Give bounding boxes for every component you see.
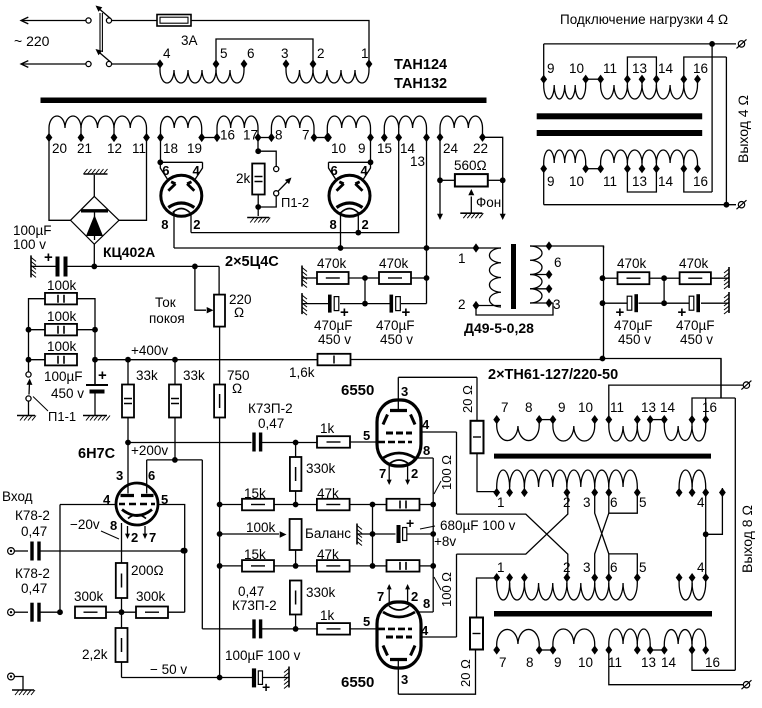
wire switch b to primary tap 4 bbox=[112, 63, 161, 65]
4ohm lower jumper box 13-14 bbox=[627, 169, 656, 192]
6N7S grid dashes bbox=[119, 503, 155, 506]
switch S1a arm bbox=[97, 7, 111, 19]
6550 no1 screen dashes bbox=[386, 432, 412, 435]
cathode rail to choke bbox=[174, 247, 476, 249]
svg-text:7: 7 bbox=[499, 655, 507, 670]
svg-text:−20v: −20v bbox=[70, 517, 100, 532]
svg-text:Ток: Ток bbox=[155, 295, 176, 310]
svg-text:Д49-5-0,28: Д49-5-0,28 bbox=[464, 320, 534, 336]
svg-text:2k: 2k bbox=[236, 171, 251, 186]
B+ feed box to taps 16 bbox=[692, 398, 735, 420]
svg-text:6: 6 bbox=[162, 163, 169, 178]
svg-text:Ω: Ω bbox=[234, 305, 244, 320]
capacitor 470uF L2 bbox=[365, 303, 390, 305]
left bus of 100k stack bbox=[29, 299, 46, 372]
svg-text:1k: 1k bbox=[320, 421, 335, 436]
svg-text:17: 17 bbox=[243, 128, 258, 143]
grid bias bus right bbox=[372, 505, 374, 566]
svg-text:12: 12 bbox=[107, 141, 122, 156]
svg-text:6: 6 bbox=[148, 468, 155, 483]
svg-text:22: 22 bbox=[473, 141, 488, 156]
svg-text:2: 2 bbox=[131, 530, 138, 545]
6550 no2 cathode arc bbox=[383, 612, 415, 617]
svg-text:4: 4 bbox=[697, 560, 705, 575]
svg-text:19: 19 bbox=[187, 141, 202, 156]
6550 no2 anode wire to 20 Ohm no2 bbox=[398, 650, 475, 695]
svg-text:100 Ω: 100 Ω bbox=[439, 455, 454, 490]
svg-text:33k: 33k bbox=[136, 368, 158, 383]
svg-text:450 v: 450 v bbox=[680, 332, 713, 347]
svg-text:300k: 300k bbox=[74, 589, 104, 604]
6N7S heater arrows pins 2 7 bbox=[127, 526, 129, 535]
secondary winding 16-17 bbox=[216, 128, 218, 138]
bus from choke pin6 bbox=[600, 275, 606, 281]
20 Ohm no2 to transformer2 tap 1 bbox=[477, 578, 497, 618]
choke D49-5-0.28 left coil bbox=[476, 247, 501, 249]
svg-text:3: 3 bbox=[401, 672, 408, 687]
resistor 100 Ohm upper bbox=[387, 499, 420, 511]
screen no1 cross wire to lower tap2 bbox=[457, 514, 568, 578]
svg-text:100µF: 100µF bbox=[13, 223, 52, 238]
svg-text:8: 8 bbox=[423, 596, 430, 611]
choke pin2 to pin3 wire bbox=[476, 303, 553, 315]
resistor 1.6k bbox=[318, 354, 351, 366]
svg-text:18: 18 bbox=[163, 141, 178, 156]
resistor 2k bbox=[252, 164, 265, 195]
wire 1k to 6550 no1 grid bbox=[350, 441, 378, 443]
20 Ohm no1 to transformer tap 1 bbox=[477, 453, 497, 491]
svg-text:Выход 8 Ω: Выход 8 Ω bbox=[739, 505, 755, 573]
svg-text:11: 11 bbox=[132, 141, 146, 156]
svg-text:6: 6 bbox=[247, 46, 255, 61]
svg-text:3: 3 bbox=[281, 46, 289, 61]
svg-text:6550: 6550 bbox=[341, 674, 374, 691]
ground above bridge bbox=[84, 169, 108, 174]
4ohm core bars bbox=[537, 113, 703, 119]
svg-text:ТАН124: ТАН124 bbox=[394, 57, 447, 73]
svg-text:100 v: 100 v bbox=[13, 237, 46, 252]
svg-text:6Н7С: 6Н7С bbox=[78, 446, 116, 462]
svg-text:2: 2 bbox=[458, 297, 466, 312]
junction bbox=[362, 275, 368, 281]
choke core bar bbox=[511, 244, 516, 309]
transformer T1 core bar bbox=[41, 98, 487, 104]
4ohm top wire with terminal bbox=[544, 43, 736, 45]
ground side left 470uF bbox=[302, 293, 307, 315]
svg-text:1,6k: 1,6k bbox=[289, 365, 315, 380]
wire to pot top bbox=[218, 266, 220, 294]
ground below P1-1 bbox=[17, 416, 36, 421]
svg-text:100µF 100 v: 100µF 100 v bbox=[225, 648, 301, 663]
resistor 750 Ohm bbox=[214, 385, 225, 418]
tube2 pin 2 wire bbox=[357, 212, 359, 233]
tube1 pin 8 wire bbox=[173, 212, 175, 248]
6N7S cathode pin8 wire bbox=[121, 523, 123, 563]
capacitor 100uF 450v bbox=[86, 384, 108, 386]
svg-text:8: 8 bbox=[330, 217, 337, 232]
fuse 3A bbox=[157, 15, 191, 27]
resistor 330k lower bbox=[290, 581, 302, 615]
svg-text:Выход 4 Ω: Выход 4 Ω bbox=[735, 95, 751, 163]
svg-text:14: 14 bbox=[660, 400, 676, 415]
svg-text:450 v: 450 v bbox=[318, 332, 351, 347]
6550 no1 cathode arc bbox=[383, 453, 415, 458]
6550 no1 anode bar and lead bbox=[390, 409, 407, 412]
svg-text:15k: 15k bbox=[244, 486, 266, 501]
svg-text:8: 8 bbox=[275, 128, 283, 143]
svg-text:10: 10 bbox=[569, 61, 584, 76]
svg-text:6: 6 bbox=[331, 163, 338, 178]
svg-text:5: 5 bbox=[363, 428, 370, 443]
wire cap to ground bbox=[263, 677, 290, 679]
svg-text:6550: 6550 bbox=[341, 382, 374, 399]
6550 no2 cathode pin8 wire bbox=[417, 611, 433, 613]
resistor 200 Ohm bbox=[116, 563, 128, 598]
svg-text:~ 220: ~ 220 bbox=[14, 33, 50, 49]
svg-text:200Ω: 200Ω bbox=[131, 563, 164, 578]
svg-text:2: 2 bbox=[193, 217, 200, 232]
svg-text:К78-2: К78-2 bbox=[15, 508, 50, 523]
tap 22 wire bbox=[483, 137, 503, 214]
svg-text:3А: 3А bbox=[181, 33, 198, 48]
svg-text:13: 13 bbox=[641, 655, 656, 670]
resistor 20 Ohm no2 bbox=[470, 618, 483, 650]
potentiometer 220 Ohm bbox=[214, 295, 225, 327]
svg-text:8: 8 bbox=[161, 217, 168, 232]
tap 17 wire down bbox=[257, 138, 259, 152]
svg-text:− 50 v: − 50 v bbox=[150, 662, 187, 677]
resistor 470k R2 bbox=[664, 277, 680, 279]
svg-text:6: 6 bbox=[554, 255, 562, 270]
tap5 upper link bbox=[609, 493, 638, 514]
bridge top to ground bbox=[93, 175, 95, 196]
label 680uF 100v with callout bbox=[420, 526, 435, 529]
svg-text:3: 3 bbox=[116, 468, 123, 483]
svg-text:100k: 100k bbox=[47, 278, 77, 293]
svg-text:7: 7 bbox=[377, 589, 384, 604]
tube #1 top flag bbox=[160, 161, 202, 163]
svg-text:16: 16 bbox=[702, 400, 717, 415]
wire input cap to grid line bbox=[39, 550, 183, 552]
6550 no2 heater arrows bbox=[388, 587, 390, 602]
svg-text:Баланс: Баланс bbox=[305, 526, 351, 541]
secondary winding 10-9 bbox=[326, 128, 328, 138]
svg-text:9: 9 bbox=[558, 400, 566, 415]
6550 no1 screen pin4 wire bbox=[420, 431, 457, 433]
resistor 330k upper bbox=[295, 443, 297, 458]
svg-text:2,2k: 2,2k bbox=[82, 647, 108, 662]
ground below 2k bbox=[247, 218, 270, 223]
6N7S anode box bbox=[172, 457, 178, 463]
TN61 no2 core bar bbox=[494, 611, 712, 617]
svg-text:11: 11 bbox=[603, 61, 617, 76]
svg-text:450 v: 450 v bbox=[618, 332, 651, 347]
ground below hum pot bbox=[460, 213, 483, 218]
svg-text:К73П-2: К73П-2 bbox=[248, 401, 293, 416]
wire to rail x426 bbox=[411, 277, 427, 279]
wire P1-1 to ground bbox=[28, 401, 30, 416]
svg-text:100k: 100k bbox=[246, 520, 276, 535]
jumper 17 to 8 winding bbox=[258, 137, 271, 139]
svg-text:2×ТН61-127/220-50: 2×ТН61-127/220-50 bbox=[488, 367, 618, 383]
resistor 15k upper bbox=[220, 504, 242, 506]
svg-text:14: 14 bbox=[658, 174, 674, 189]
svg-text:11: 11 bbox=[608, 655, 622, 670]
svg-text:Фон: Фон bbox=[476, 195, 501, 210]
4ohm upper winding bbox=[543, 44, 545, 79]
resistor 100k R3 bbox=[45, 354, 77, 366]
svg-text:покоя: покоя bbox=[149, 311, 185, 326]
svg-text:7: 7 bbox=[302, 128, 310, 143]
ground below 100uF 450v bbox=[83, 416, 110, 421]
svg-text:+200v: +200v bbox=[131, 443, 168, 458]
svg-text:10: 10 bbox=[569, 174, 584, 189]
svg-text:6: 6 bbox=[610, 495, 618, 510]
svg-text:13: 13 bbox=[632, 174, 647, 189]
TN61 no1 primary winding 1-4 row bbox=[493, 488, 500, 497]
choke right coil bbox=[530, 246, 542, 303]
tube #2 top flag bbox=[329, 161, 371, 163]
jumper 19 to 16 winding bbox=[202, 137, 217, 139]
screen no2 cross wire to upper tap2 bbox=[457, 493, 568, 555]
6550 no1 cathode pin8 wire bbox=[417, 457, 433, 459]
svg-text:0,47: 0,47 bbox=[21, 524, 47, 539]
svg-text:330k: 330k bbox=[306, 461, 336, 476]
4ohm lower winding bbox=[543, 169, 545, 205]
svg-text:560Ω: 560Ω bbox=[454, 158, 487, 173]
switch S1a pole bbox=[106, 18, 111, 23]
4ohm lower right link 16 bbox=[684, 169, 712, 192]
svg-text:14: 14 bbox=[661, 655, 677, 670]
output tube 6550 no2 bbox=[377, 602, 421, 668]
TN61 no2 primary winding 1-4 row bbox=[493, 573, 500, 582]
svg-text:47k: 47k bbox=[317, 486, 339, 501]
svg-text:47k: 47k bbox=[317, 547, 339, 562]
2k bottom junction bbox=[257, 195, 259, 216]
bridge bottom wire bbox=[93, 244, 95, 266]
resistor 47k upper bbox=[317, 499, 350, 511]
svg-text:470µF: 470µF bbox=[376, 318, 415, 333]
svg-text:7: 7 bbox=[379, 466, 386, 481]
resistor 15k lower bbox=[220, 565, 242, 567]
triode 6N7S bbox=[116, 483, 158, 525]
heater line from tap 14 bbox=[191, 138, 399, 233]
AC input terminal circle 2 bbox=[86, 61, 91, 66]
svg-text:13: 13 bbox=[641, 400, 656, 415]
capacitor 470uF R1 bbox=[603, 302, 628, 304]
svg-text:5: 5 bbox=[363, 614, 370, 629]
svg-text:20: 20 bbox=[52, 141, 67, 156]
svg-text:8: 8 bbox=[525, 400, 533, 415]
resistor 33k B bbox=[174, 360, 176, 385]
rectifier tube 5Ts4S #1 bbox=[161, 175, 202, 216]
wire junction to bias pot bbox=[94, 265, 219, 267]
wire cap to cathode bus bbox=[407, 533, 433, 535]
wire to ground right bbox=[711, 277, 729, 279]
wire cap to 1k bbox=[261, 442, 317, 444]
svg-text:20 Ω: 20 Ω bbox=[460, 385, 475, 413]
resistor 470k L1 bbox=[302, 277, 317, 279]
svg-text:11: 11 bbox=[603, 174, 617, 189]
svg-text:470k: 470k bbox=[379, 256, 409, 271]
+400v rail bbox=[95, 359, 318, 361]
cathode bus between bbox=[432, 505, 434, 566]
secondary winding 8-7 bbox=[270, 128, 272, 138]
+400v rail right part bbox=[351, 359, 603, 361]
svg-text:3: 3 bbox=[553, 297, 561, 312]
TN61 no1 secondary winding 7-16 top row bbox=[493, 415, 500, 424]
wire tap 11 to bridge right bbox=[119, 138, 147, 221]
ground side for C 100uF 100v bbox=[31, 255, 36, 277]
switch P1-1 bbox=[26, 372, 31, 377]
secondary winding 18-19 bbox=[160, 128, 162, 138]
svg-text:0,47: 0,47 bbox=[258, 416, 284, 431]
svg-text:КЦ402А: КЦ402А bbox=[103, 244, 155, 260]
6550 no1 beam plates bbox=[383, 415, 415, 425]
svg-text:4: 4 bbox=[422, 417, 430, 432]
svg-text:15: 15 bbox=[377, 141, 392, 156]
svg-text:470k: 470k bbox=[317, 256, 347, 271]
capacitor 470uF L1 bbox=[302, 303, 328, 305]
svg-text:100k: 100k bbox=[47, 339, 77, 354]
svg-text:1k: 1k bbox=[320, 608, 335, 623]
secondary winding 24-22 bbox=[439, 128, 441, 137]
tap5 lower link bbox=[609, 554, 638, 578]
svg-text:К78-2: К78-2 bbox=[15, 566, 50, 581]
resistor 33k A bbox=[127, 360, 129, 385]
jumper 7 to 10 winding bbox=[314, 137, 327, 139]
ground hatch balance bbox=[357, 524, 362, 546]
svg-text:6: 6 bbox=[610, 560, 618, 575]
diode bar bbox=[81, 209, 108, 212]
resistor 100k R2 bbox=[45, 324, 77, 336]
wire jumper taps 5-2 bbox=[216, 39, 313, 64]
svg-text:3: 3 bbox=[583, 495, 591, 510]
switch S1b arm bbox=[97, 51, 111, 63]
svg-text:24: 24 bbox=[443, 141, 459, 156]
svg-text:680µF 100 v: 680µF 100 v bbox=[440, 518, 516, 533]
6N7S cathode arc bbox=[122, 510, 152, 516]
svg-text:П1-2: П1-2 bbox=[281, 195, 309, 210]
svg-text:5: 5 bbox=[639, 560, 647, 575]
svg-text:3: 3 bbox=[401, 384, 408, 399]
svg-text:1: 1 bbox=[497, 495, 505, 510]
svg-text:3: 3 bbox=[583, 560, 591, 575]
svg-text:16: 16 bbox=[220, 128, 235, 143]
left input bus bbox=[59, 505, 61, 613]
svg-text:14: 14 bbox=[658, 61, 674, 76]
svg-text:470k: 470k bbox=[617, 256, 647, 271]
wire tap 20 to bridge left bbox=[49, 138, 71, 221]
svg-text:10: 10 bbox=[578, 655, 593, 670]
svg-text:100 Ω: 100 Ω bbox=[439, 572, 454, 607]
TN61 no2 tap16 to right rail bbox=[692, 650, 735, 670]
svg-text:+8v: +8v bbox=[434, 534, 456, 549]
choke right taps bbox=[530, 245, 549, 247]
6550 no2 grid dashes bbox=[378, 628, 412, 631]
svg-text:Подключение нагрузки 4 Ω: Подключение нагрузки 4 Ω bbox=[560, 12, 728, 27]
svg-text:9: 9 bbox=[547, 174, 555, 189]
svg-text:8: 8 bbox=[423, 443, 430, 458]
svg-text:8: 8 bbox=[526, 655, 534, 670]
wires of 100uF 450v bbox=[94, 360, 96, 385]
resistor 20 Ohm no1 bbox=[471, 421, 484, 454]
4ohm upper right link 16 bbox=[684, 57, 727, 79]
svg-text:4: 4 bbox=[421, 623, 429, 638]
svg-text:2: 2 bbox=[411, 589, 418, 604]
svg-text:4: 4 bbox=[163, 46, 171, 61]
resistor 100 Ohm lower bbox=[387, 560, 420, 572]
svg-text:5: 5 bbox=[639, 495, 647, 510]
svg-text:330k: 330k bbox=[306, 585, 336, 600]
transformer T1 primary winding section 3-2-1 bbox=[285, 64, 287, 70]
right rail down to TN61 no2 tap16 bbox=[734, 398, 736, 670]
svg-text:11: 11 bbox=[610, 400, 624, 415]
anode box right to lower coupling cap bbox=[201, 460, 203, 629]
resistor 100k R1 bbox=[45, 293, 77, 305]
svg-text:2: 2 bbox=[317, 46, 325, 61]
capacitor 680uF 100v bbox=[373, 533, 396, 535]
terminal 8 Ohm bottom with wire bbox=[609, 650, 743, 685]
hum pot wiper from ground bbox=[470, 197, 472, 214]
capacitor 100uF 100v bbox=[56, 257, 60, 277]
svg-text:450 v: 450 v bbox=[380, 332, 413, 347]
primary tap diamonds bbox=[157, 59, 164, 68]
svg-text:0,47: 0,47 bbox=[21, 581, 47, 596]
pot bottom to 750 Ohm bbox=[219, 327, 221, 385]
secondary winding 15-14-13 bbox=[383, 128, 385, 138]
6550 no1 grid dashes and lead bbox=[378, 441, 412, 444]
svg-text:4: 4 bbox=[361, 163, 369, 178]
svg-text:470µF: 470µF bbox=[314, 318, 353, 333]
tube2 pin 8 wire bbox=[340, 212, 342, 248]
svg-text:10: 10 bbox=[331, 141, 346, 156]
svg-text:1: 1 bbox=[361, 46, 369, 61]
rail corner to output box bbox=[603, 359, 722, 399]
wiper junction bbox=[192, 264, 198, 270]
tap 9 feed to tube2 flag bbox=[370, 138, 372, 163]
main ground terminal bottom left bbox=[8, 673, 15, 680]
tap4 link between transformers bbox=[705, 493, 707, 578]
resistor 2.2k bbox=[121, 598, 123, 628]
svg-text:5: 5 bbox=[220, 46, 228, 61]
svg-text:ТАН132: ТАН132 bbox=[394, 76, 447, 92]
4ohm outer vertical rail bbox=[725, 57, 727, 205]
switch mechanical link bbox=[99, 13, 101, 52]
4ohm inner vertical rail bbox=[711, 44, 713, 192]
svg-text:П1-1: П1-1 bbox=[48, 409, 76, 424]
coupling capacitor K73P-2 0.47 upper bbox=[252, 433, 255, 452]
svg-text:2: 2 bbox=[411, 466, 418, 481]
6550 no2 screen dashes bbox=[386, 636, 412, 639]
diode triangle bbox=[86, 215, 103, 236]
svg-text:10: 10 bbox=[578, 400, 593, 415]
transformer T1 primary winding section 4-5-6 bbox=[159, 64, 161, 70]
svg-text:Ω: Ω bbox=[232, 381, 242, 396]
resistor 470k R1 bbox=[603, 277, 618, 279]
svg-text:2×5Ц4С: 2×5Ц4С bbox=[225, 254, 279, 270]
terminal 8 Ohm top with wire bbox=[743, 382, 749, 388]
svg-text:4: 4 bbox=[697, 495, 705, 510]
AC input terminal circle 1 bbox=[86, 18, 91, 23]
svg-text:1: 1 bbox=[497, 560, 505, 575]
resistor 1k upper bbox=[317, 436, 350, 448]
output tube 6550 no1 bbox=[377, 400, 421, 466]
svg-text:+: + bbox=[262, 679, 270, 695]
bridge rectifier KTs402A diamond bbox=[71, 196, 120, 244]
svg-text:16: 16 bbox=[705, 655, 720, 670]
svg-text:7: 7 bbox=[501, 400, 509, 415]
